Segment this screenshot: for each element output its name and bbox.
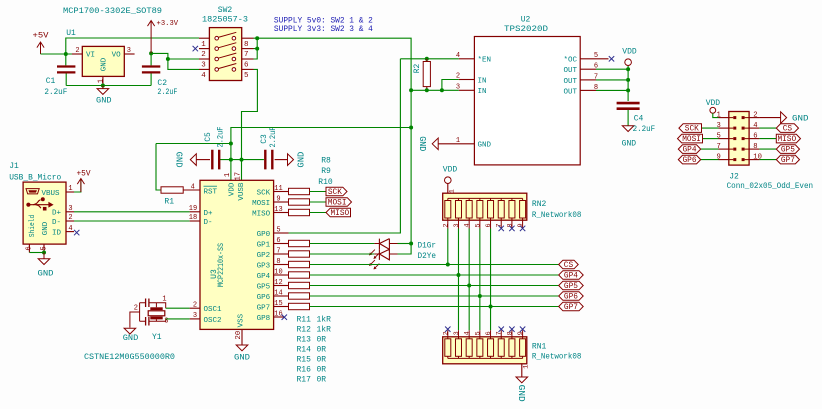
J1 pin 4 stub (66, 231, 74, 233)
J2 pin 10 stub (749, 159, 759, 161)
svg-text:ID: ID (52, 230, 62, 238)
U2 pin 1 GND pin line (438, 143, 474, 145)
U3 pin 14 stub (274, 295, 289, 297)
svg-text:2: 2 (442, 223, 450, 227)
svg-text:OUT: OUT (563, 67, 577, 75)
svg-text:MCP2210x-SS: MCP2210x-SS (217, 243, 226, 287)
wire row GP6 (310, 295, 559, 297)
svg-text:R17: R17 (297, 375, 312, 384)
wire MISO to label (310, 212, 327, 214)
resistor R12 (289, 251, 310, 257)
svg-text:R8: R8 (321, 156, 331, 165)
svg-text:GND: GND (234, 353, 250, 363)
svg-text:VDD: VDD (706, 99, 721, 108)
svg-text:3: 3 (68, 205, 72, 213)
junction R2 bottom (425, 88, 429, 92)
wire C3 to GND (275, 159, 288, 161)
global label CS (559, 260, 579, 269)
junction GP5 row (467, 284, 471, 288)
junction SW2 pin8 (255, 36, 259, 40)
wire VDD node vertical (627, 66, 629, 102)
wire C5 to GND (196, 159, 210, 161)
svg-text:4: 4 (201, 72, 206, 80)
J2 pin 1 stub (719, 117, 729, 119)
svg-text:U1: U1 (66, 29, 76, 38)
capacitor C3 plates (265, 150, 272, 170)
no-connect X U2 OC (609, 56, 614, 61)
J2 pin pads (733, 148, 744, 151)
junction GP7 row (489, 305, 493, 309)
SW2 right pin stub 7 (242, 48, 254, 50)
svg-text:0R: 0R (317, 336, 327, 345)
wire R1 up leg (156, 144, 161, 191)
svg-text:19: 19 (189, 205, 197, 213)
svg-text:1kR: 1kR (317, 316, 332, 325)
J2 pin 6 stub (749, 138, 759, 140)
svg-text:GP5: GP5 (257, 283, 271, 291)
regulator U1 body (82, 46, 124, 76)
svg-text:9: 9 (716, 153, 720, 161)
wire EN row (400, 58, 458, 60)
global label GP4 at J2 (678, 145, 700, 154)
svg-text:MISO: MISO (330, 210, 349, 218)
svg-text:OUT: OUT (563, 78, 577, 86)
U3 pin 9 stub (274, 201, 289, 203)
RN1 resistor element 1 (445, 339, 451, 357)
ground arrow right of C3 (288, 154, 294, 166)
wire D1 to VDD vertical (398, 243, 412, 245)
svg-text:GND: GND (516, 385, 526, 402)
RN1 resistor element 6 (498, 339, 504, 357)
resistor R10 (289, 209, 310, 215)
svg-text:1825057-3: 1825057-3 (202, 16, 248, 25)
svg-text:+5V: +5V (77, 168, 91, 178)
capacitor C5 plates (212, 150, 219, 170)
junction long VDD wire (409, 126, 413, 130)
no-connect X RN1 pin 2 (445, 327, 450, 332)
svg-text:5: 5 (716, 132, 720, 140)
U2 pin 5 stub OC with NC (580, 58, 608, 60)
J2 pin 8 stub (749, 148, 759, 150)
J2 pin 3 stub (719, 127, 729, 129)
RN2 resistor element 1 (445, 201, 451, 219)
SW2 left pin stub 4 (199, 68, 209, 70)
power symbol VDD at J2 (710, 107, 716, 113)
junction SW2 pin7 (255, 47, 259, 51)
svg-text:GP2: GP2 (257, 252, 271, 260)
wire SW2 out rail to U2 area (257, 38, 411, 90)
wire J2 pin2 to GND (759, 117, 780, 119)
wire VDD rail up and right (231, 128, 411, 160)
svg-text:GND: GND (174, 152, 184, 168)
svg-text:RST: RST (204, 188, 218, 196)
svg-text:C3: C3 (260, 134, 269, 144)
svg-text:GP7: GP7 (781, 157, 795, 165)
wire RN2 pin3 through GP4 row to RN1 (457, 229, 459, 331)
power symbol +5V at J1 (77, 179, 84, 193)
svg-text:C1: C1 (46, 77, 56, 86)
svg-text:TPS2020D: TPS2020D (504, 25, 548, 34)
ground arrow at U2 pin1 (432, 138, 438, 150)
resistor R9 (289, 199, 310, 205)
U2 pin 3 stub IN (459, 89, 475, 91)
junction SW2 pin3/pin4 feed (166, 57, 170, 61)
U3 pin 20 stub VSS (241, 329, 243, 345)
svg-text:SCK: SCK (685, 126, 699, 134)
wire row CS (310, 264, 559, 266)
RN1 resistor element 3 (466, 339, 472, 357)
svg-text:8: 8 (244, 41, 249, 49)
junction GP6 row (478, 294, 482, 298)
wire SCK to J2 (702, 127, 719, 129)
junction J1 gnd (42, 251, 46, 255)
svg-text:D+: D+ (204, 210, 214, 218)
svg-text:1: 1 (456, 137, 460, 145)
svg-text:5: 5 (594, 52, 598, 60)
resistor R14 (289, 272, 310, 278)
SW2 switch element row 2 (215, 43, 236, 51)
global label GP5 (559, 281, 584, 290)
svg-text:2: 2 (193, 301, 197, 309)
svg-text:GP5: GP5 (781, 147, 795, 155)
svg-text:18: 18 (189, 214, 197, 222)
svg-text:*EN: *EN (478, 57, 492, 65)
svg-text:6: 6 (485, 331, 493, 335)
wire VDD vertical to LEDs (410, 128, 412, 244)
ground symbol below J1 (38, 253, 50, 265)
svg-text:J2: J2 (729, 173, 739, 182)
J1 pin 6 shield stub (28, 244, 30, 252)
svg-text:2.2uF: 2.2uF (633, 125, 656, 134)
J1 pin 1 stub (66, 191, 74, 193)
global label GP6 at J2 (678, 155, 700, 164)
svg-text:GND: GND (478, 142, 492, 150)
wire +5V to U1 VI (41, 53, 83, 55)
wire J2 to GP7 (759, 159, 776, 161)
global label MOSI (326, 198, 352, 207)
no-connect X SW2 pin 2 (193, 46, 198, 51)
U3 pin 19 stub D+ (190, 211, 200, 213)
wire 3.3V rail to SW2 (151, 53, 199, 59)
svg-text:GND: GND (42, 221, 50, 235)
connector J1 body (23, 182, 66, 244)
svg-text:1: 1 (201, 41, 206, 49)
R1 to RST stub (183, 189, 200, 191)
svg-text:5: 5 (40, 246, 48, 250)
svg-text:MISO: MISO (777, 136, 796, 144)
U2 pin 2 stub IN (459, 79, 475, 81)
U3 pin 7 stub (274, 253, 289, 255)
U1 pin 3 stub (124, 53, 134, 55)
ground symbol at Y1 (124, 328, 136, 334)
svg-text:OSC1: OSC1 (204, 306, 223, 314)
ground arrow left of C5 (190, 154, 196, 166)
wire VDD rail C5-C3 (219, 159, 264, 161)
svg-text:GND: GND (417, 136, 427, 151)
svg-text:5: 5 (474, 331, 482, 335)
wire GP0 to U2 EN (289, 59, 401, 233)
svg-text:SCK: SCK (257, 189, 271, 197)
junction R2 top (425, 57, 429, 61)
resistor network RN1 body (443, 337, 527, 364)
wire GP1 to D1 (310, 243, 375, 245)
svg-text:GP0: GP0 (257, 231, 271, 239)
svg-text:C5: C5 (204, 132, 213, 142)
wire SCK to label (310, 191, 327, 193)
resistor R16 (289, 293, 310, 299)
wire D+ to U3 (74, 211, 190, 213)
svg-text:RN2: RN2 (532, 200, 547, 209)
svg-text:GP4: GP4 (564, 272, 578, 280)
wire GP4 to J2 (701, 148, 719, 150)
junction CS row (446, 263, 450, 267)
RN1 resistor element 5 (488, 339, 494, 357)
global label CS at J2 (776, 124, 798, 133)
J2 pin pads (733, 158, 744, 161)
no-connect X RN1 pin 9 (520, 327, 525, 332)
SW2 left pin stub 2 (199, 48, 209, 50)
U1 pin 2 stub (72, 53, 82, 55)
svg-text:MISO: MISO (252, 210, 271, 218)
power symbol VDD at C4 (625, 59, 632, 66)
no-connect X RN2 pin 9 (520, 226, 525, 231)
svg-text:3: 3 (127, 47, 131, 55)
svg-text:3: 3 (193, 312, 197, 320)
wire +5V rail up to SW2 pin1 (66, 38, 199, 54)
svg-text:RN1: RN1 (532, 342, 547, 351)
svg-text:Shield: Shield (29, 215, 37, 238)
junction D1 anode VDD (409, 242, 413, 246)
resonator Y1 leads (130, 303, 166, 328)
svg-text:IN: IN (478, 77, 487, 85)
capacitor C2 plates (142, 67, 160, 73)
RN2 resistor element 2 (455, 201, 461, 219)
RN1 resistor element 8 (520, 339, 526, 357)
svg-text:GND: GND (38, 269, 54, 279)
wire OSC1 (166, 307, 190, 309)
svg-text:2: 2 (68, 214, 72, 222)
R2 top stub (426, 59, 428, 62)
switch SW2 body (209, 28, 241, 81)
RN2 resistor element 8 (520, 201, 526, 219)
svg-text:2: 2 (201, 51, 206, 59)
resistor R13 (289, 261, 310, 267)
svg-text:SUPPLY 3v3: SW2 3 & 4: SUPPLY 3v3: SW2 3 & 4 (274, 25, 373, 34)
wire OUT6 to VDD node (596, 68, 628, 70)
no-connect X J1 ID (74, 230, 79, 235)
svg-text:GP7: GP7 (564, 304, 578, 312)
J2 pin pads (733, 116, 744, 119)
svg-text:GND: GND (101, 57, 109, 71)
svg-text:VSS: VSS (238, 313, 246, 327)
svg-text:GP6: GP6 (257, 294, 271, 302)
U2 pin 7 stub OUT (580, 79, 596, 81)
svg-text:2: 2 (75, 47, 79, 55)
svg-text:CS: CS (564, 262, 574, 270)
svg-text:MOSI: MOSI (328, 199, 347, 207)
svg-text:R15: R15 (297, 355, 312, 364)
svg-text:2.2uF: 2.2uF (217, 126, 226, 147)
svg-text:3: 3 (453, 331, 461, 335)
svg-text:R2: R2 (413, 64, 422, 74)
svg-text:4: 4 (753, 122, 757, 130)
SW2 right pin stub 8 (242, 37, 254, 39)
svg-text:IN: IN (478, 88, 487, 96)
junction U1 pin1 GND (101, 84, 105, 88)
wire C1 top (65, 54, 67, 65)
resonator Y1 crystal (148, 307, 165, 319)
svg-text:VO: VO (112, 52, 122, 60)
U2 pin 8 stub OUT (580, 89, 596, 91)
RN1 pin 1 stub to GND (521, 363, 523, 377)
svg-text:2: 2 (134, 304, 138, 312)
ground symbol under U1 (97, 86, 109, 95)
wire RN2 pin2 to CS row (447, 229, 449, 265)
SW2 left pin stub 1 (199, 37, 209, 39)
svg-text:OUT: OUT (563, 88, 577, 96)
capacitor C4 plates (617, 103, 640, 109)
wire OUT8 to VDD node (596, 89, 628, 91)
U3 pin 10 stub (274, 274, 289, 276)
U1 pin 1 stub (102, 76, 104, 85)
wire VDD vertical upper (410, 90, 412, 127)
power symbol +3.3V arrow (148, 21, 155, 54)
svg-text:1: 1 (224, 173, 232, 177)
svg-text:GND: GND (297, 152, 307, 168)
svg-text:D-: D- (52, 219, 61, 227)
svg-text:VDD: VDD (443, 165, 458, 174)
svg-text:6: 6 (753, 132, 757, 140)
svg-text:GP1: GP1 (257, 241, 271, 249)
svg-text:SW2: SW2 (218, 6, 233, 15)
wire C4 bottom (627, 110, 629, 126)
global label MISO (326, 208, 351, 217)
svg-text:*OC: *OC (563, 57, 577, 65)
svg-text:VI: VI (86, 52, 95, 60)
wire SW2 pin5 down to VDD rail (242, 69, 258, 159)
svg-text:C2: C2 (157, 79, 167, 88)
U3 pin 6 stub (274, 243, 289, 245)
power symbol VDD at RN2 (445, 177, 452, 184)
U3 pin 2 stub OSC1 (190, 307, 200, 309)
U3 pin 18 stub D- (190, 220, 200, 222)
SW2 switch element row 4 (215, 64, 236, 72)
J2 pin 5 stub (719, 138, 729, 140)
svg-text:R14: R14 (297, 346, 312, 355)
svg-text:R11: R11 (297, 316, 312, 325)
svg-text:R12: R12 (297, 326, 312, 335)
wire row GP4 (310, 274, 559, 276)
svg-text:GP6: GP6 (564, 293, 578, 301)
J2 pin 7 stub (719, 148, 729, 150)
svg-text:1: 1 (523, 365, 531, 369)
svg-text:GND: GND (792, 114, 809, 124)
RN2 resistor element 5 (488, 201, 494, 219)
svg-text:5: 5 (474, 223, 482, 227)
RN1 internal bus and pin stubs (448, 330, 523, 358)
global label GP4 (559, 271, 584, 280)
svg-text:VDD: VDD (229, 182, 237, 196)
junction VDD rail / U3 VDD (229, 158, 233, 162)
J1 mini-USB plug icon (26, 189, 39, 194)
U2 pin 6 stub OUT (580, 68, 596, 70)
junction VDD rail / U3 VUSB (240, 158, 244, 162)
svg-text:GP4: GP4 (682, 147, 696, 155)
svg-text:5: 5 (244, 72, 249, 80)
wire MOSI to J2 (703, 138, 719, 140)
RN2 resistor element 4 (477, 201, 483, 219)
junction OUT6 (626, 67, 630, 71)
wire OUT7 to VDD node (596, 79, 628, 81)
ground symbol below C4 (622, 126, 634, 132)
svg-text:1: 1 (97, 79, 105, 83)
SW2 switch element row 3 (215, 53, 236, 61)
junction IN2 jog (440, 88, 444, 92)
U3 pin 16 stub (274, 316, 284, 318)
resistor R15 (289, 282, 310, 288)
svg-text:1: 1 (162, 296, 166, 304)
no-connect X U3 GP8 (282, 315, 287, 320)
RN1 resistor element 2 (455, 339, 461, 357)
svg-text:2: 2 (442, 331, 450, 335)
IC U3 body (200, 180, 274, 329)
svg-text:C4: C4 (634, 115, 644, 124)
wire IN2 jog up (442, 80, 459, 91)
wire J2 to MISO (759, 138, 776, 140)
wire VBUS to +5V (74, 179, 81, 193)
wire RN2 pin4 through GP5 row to RN1 (468, 229, 470, 331)
RN2 pin 1 stub (447, 184, 449, 201)
R2 bottom stub (426, 87, 428, 91)
svg-text:4: 4 (191, 184, 195, 192)
junction OUT8 (626, 88, 630, 92)
wire J2 to CS (759, 127, 776, 129)
svg-text:VDD: VDD (622, 47, 637, 56)
LED D1 (369, 239, 397, 259)
svg-text:4: 4 (68, 225, 72, 233)
wire R1 pullup rail (156, 143, 231, 145)
svg-text:6: 6 (244, 62, 249, 70)
wire D- to U3 (74, 220, 190, 222)
J2 pin 4 stub (749, 127, 759, 129)
wire GP6 to J2 (701, 159, 719, 161)
wire C1 bottom (65, 74, 67, 86)
svg-text:GP7: GP7 (257, 304, 271, 312)
svg-text:R1: R1 (164, 198, 174, 207)
svg-text:GND: GND (123, 333, 139, 343)
svg-text:3: 3 (716, 122, 720, 130)
global label MISO at J2 (776, 134, 800, 143)
resistor network RN2 body (443, 193, 527, 220)
svg-text:0R: 0R (317, 355, 327, 364)
junction C2/+3.3V (149, 51, 153, 55)
no-connect X RN2 pin 8 (509, 226, 514, 231)
J2 pin 9 stub (719, 159, 729, 161)
svg-text:2: 2 (753, 111, 757, 119)
resistor R11 (289, 240, 310, 246)
no-connect X RN2 pin 7 (499, 226, 504, 231)
U3 pin name RST (204, 186, 218, 196)
svg-text:3: 3 (201, 62, 206, 70)
U3 pin 8 stub (274, 264, 289, 266)
wire J2 to GP5 (759, 148, 776, 150)
U3 pin 13 stub (274, 212, 289, 214)
svg-text:GP5: GP5 (564, 283, 578, 291)
RN2 resistor element 6 (498, 201, 504, 219)
J1 pin 5 gnd stub (43, 244, 45, 252)
power symbol +5V arrow (37, 42, 44, 54)
wire drop to SW2 pin4 (168, 59, 199, 69)
